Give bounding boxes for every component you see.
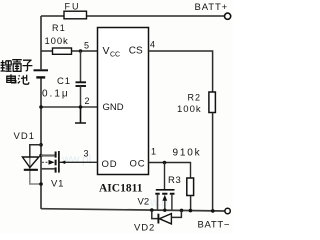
svg-text:R3: R3 [168,175,181,186]
wire pin2 GND [41,106,98,108]
svg-text:AIC1811: AIC1811 [99,183,143,195]
svg-text:OC: OC [130,159,146,170]
svg-text:100k: 100k [45,36,69,47]
svg-text:C1: C1 [57,76,71,87]
wire top rail [41,15,225,17]
battery cell [34,70,49,77]
wire left rail [40,16,42,209]
terminal BATT+ [195,2,231,19]
svg-text:OD: OD [102,159,118,170]
resistor R3 910k [168,148,201,211]
node rail-gnd junction [39,105,43,109]
svg-text:100k: 100k [177,104,202,115]
wire pin4 CS [149,51,213,92]
svg-text:GND: GND [103,102,124,113]
terminal BATT- [198,208,231,230]
svg-text:VD2: VD2 [134,223,155,234]
svg-text:VD1: VD1 [14,131,35,142]
svg-text:5: 5 [84,41,89,51]
diode VD1 [14,131,42,184]
capacitor C1 [42,51,86,107]
svg-text:4: 4 [150,40,155,50]
label lithium-ion battery (Chinese) [1,59,33,71]
node VD1 top junction [39,143,43,147]
svg-text:FU: FU [65,2,81,12]
ground [75,107,86,123]
svg-text:V1: V1 [51,179,64,190]
svg-text:CC: CC [110,52,120,59]
svg-text:0.1μ: 0.1μ [42,89,70,100]
svg-text:1: 1 [151,147,156,157]
svg-text:R1: R1 [52,23,66,33]
diode VD2 [134,210,181,233]
transistor V1 [39,151,64,190]
wire bottom rail [41,209,225,211]
node V2 body junction [163,209,166,212]
node R3 bottom junction [189,209,193,213]
node pin5 junction [79,49,83,53]
wire pin1 OC [149,163,191,179]
svg-text:2: 2 [85,96,90,106]
svg-text:R2: R2 [188,93,202,103]
transistor V2 [138,163,175,211]
wire pin3 OD [60,161,98,163]
resistor R1 [41,23,98,54]
node VD2 left junction [150,208,154,212]
svg-text:V2: V2 [138,197,150,208]
svg-text:V: V [103,45,110,57]
svg-text:910k: 910k [173,148,202,159]
resistor R2 [177,92,215,211]
node gate junction V2 [163,161,167,165]
node R2 bottom junction [211,209,215,213]
node C1-gnd junction [79,105,83,109]
svg-text:BATT+: BATT+ [195,2,229,13]
node VD2 right junction [180,209,184,213]
fuse FU [64,2,87,19]
node VD1 bottom junction [39,182,43,186]
svg-text:3: 3 [84,149,89,159]
svg-text:BATT−: BATT− [198,220,231,231]
op-amp U1 AIC1811 [98,28,149,195]
svg-text:CS: CS [129,46,143,57]
